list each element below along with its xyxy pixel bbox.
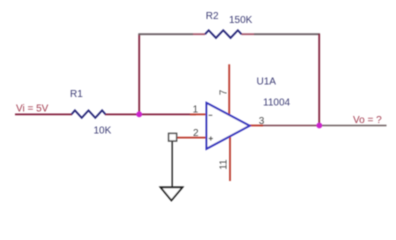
wire: feedback net left vertical (138, 34, 140, 114)
wire: output net from pin 3 to junction (260, 125, 319, 127)
pin 2 lead of op-amp from ground square (177, 137, 207, 139)
resistor R2 zigzag (205, 30, 242, 38)
wire: feedback net top right horizontal (desaturated) (254, 33, 320, 35)
ground symbol triangle (161, 187, 183, 200)
op-amp non-inverting input plus sign (209, 136, 213, 140)
svg-text:1: 1 (193, 104, 199, 115)
svg-text:11: 11 (219, 159, 230, 170)
op-amp U1A triangle (207, 103, 250, 149)
pin 11 power lead (vertical, bottom) (229, 136, 231, 181)
wire: feedback net right vertical (318, 34, 320, 126)
wire: input net from Vi to R1 and op-amp pin 1 (15, 113, 72, 115)
pin 1 lead of op-amp (190, 113, 207, 115)
wire: R1 right side to junction and pin 1 (105, 113, 196, 115)
svg-text:3: 3 (259, 116, 265, 127)
ground wire vertical (171, 141, 173, 187)
wire: feedback net into R2 left lead (193, 33, 205, 35)
wire: output net junction to Vo (desaturated) (319, 125, 387, 127)
ground connector square at pin 2 (169, 133, 177, 141)
pin 3 output lead of op-amp (250, 125, 264, 127)
svg-text:2: 2 (193, 128, 199, 139)
svg-text:150K: 150K (229, 15, 253, 26)
svg-text:Vo = ?: Vo = ? (353, 115, 382, 126)
wire: feedback net top left horizontal (desaturated) (138, 33, 193, 35)
junction node at R1 / feedback (136, 111, 142, 117)
junction node at output / feedback (316, 123, 322, 129)
resistor R1 zigzag (72, 110, 106, 117)
svg-text:R1: R1 (70, 89, 83, 100)
svg-text:11004: 11004 (263, 97, 291, 108)
svg-text:7: 7 (218, 89, 229, 95)
svg-text:Vi = 5V: Vi = 5V (16, 104, 49, 115)
svg-text:U1A: U1A (257, 76, 277, 87)
pin 7 power lead (vertical, top) (228, 64, 230, 115)
op-amp inverting input minus sign (209, 114, 213, 116)
wire: R2 right lead (242, 33, 255, 35)
svg-text:10K: 10K (94, 125, 112, 136)
svg-text:R2: R2 (206, 11, 219, 22)
